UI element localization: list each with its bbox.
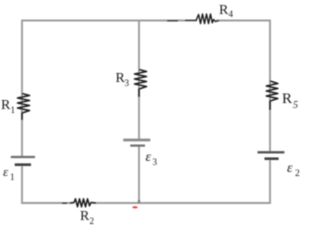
red marker node	[132, 206, 137, 208]
svg-text:1: 1	[11, 105, 16, 115]
wire bottom (right segment)	[92, 202, 271, 204]
svg-text:ε: ε	[3, 164, 9, 179]
svg-text:2: 2	[90, 216, 95, 226]
resistor R2	[62, 202, 67, 204]
svg-text:5: 5	[293, 100, 298, 111]
svg-text:R: R	[282, 91, 292, 107]
svg-text:4: 4	[229, 9, 234, 19]
wire middle branch upper	[138, 21, 140, 141]
resistor R2 zigzag	[70, 199, 96, 207]
wire bottom (left segment)	[21, 202, 74, 204]
wire right side lower	[269, 159, 271, 203]
resistor R4 lead	[185, 19, 197, 21]
svg-text:R: R	[80, 209, 90, 224]
node junction middle-bottom	[138, 200, 140, 203]
wire middle branch lower	[138, 146, 140, 204]
svg-text:R: R	[1, 98, 11, 113]
svg-text:ε: ε	[146, 150, 152, 165]
svg-text:1: 1	[10, 172, 15, 182]
svg-text:R: R	[219, 3, 229, 18]
svg-text:2: 2	[295, 169, 300, 179]
resistor R4	[167, 20, 178, 22]
battery E2 plate short	[265, 157, 279, 160]
wire top (left segment)	[22, 20, 197, 22]
wire right side	[269, 20, 271, 152]
resistor R1	[18, 94, 30, 121]
battery E1 plate long	[11, 156, 35, 158]
resistor R4 zigzag	[196, 14, 219, 24]
wire top (right segment)	[216, 20, 270, 22]
svg-text:3: 3	[125, 78, 130, 88]
battery E2 plate long	[258, 151, 285, 153]
resistor R3	[135, 70, 147, 98]
battery E3 plate long	[123, 139, 150, 142]
battery E1 plate short	[15, 163, 31, 166]
wire left side	[21, 20, 23, 157]
svg-text:3: 3	[153, 157, 158, 167]
battery E3 plate short	[130, 145, 145, 147]
wire left side lower	[21, 165, 23, 203]
svg-text:ε: ε	[287, 161, 293, 176]
resistor R5	[266, 81, 278, 110]
